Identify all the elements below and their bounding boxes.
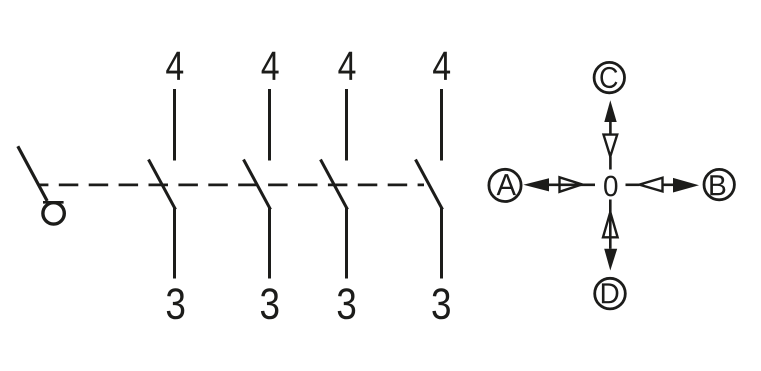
return arrow from B toward 0 (open) [639,178,662,192]
pin label 3 (pole 1) [167,288,184,319]
pin label 4 (pole 3) [338,52,355,80]
pin label 3 (pole 2) [261,288,278,319]
pole 3 bottom terminal wire (pin 3) [345,208,348,279]
node A circle [489,169,521,201]
node B letter [710,175,725,195]
node C circle [594,62,624,92]
actuator lever end bar [43,201,64,204]
node 0 (center rest position) [604,176,617,197]
return arrow from D toward 0 (open) [603,212,618,237]
pin label 3 (pole 4) [432,288,449,319]
pole 4 contact blade [416,160,443,210]
pole 1 contact blade [149,160,176,210]
pole 4 bottom terminal wire (pin 3) [440,208,443,279]
pin label 4 (pole 1) [166,52,183,80]
wire 0 to D (down arm) [609,200,612,249]
pole 4 top terminal wire (pin 4) [440,89,443,161]
actuate arrow toward D (filled) [604,249,617,271]
pole 3 top terminal wire (pin 4) [345,89,348,161]
node D letter [602,283,618,303]
return arrow from A toward 0 (open) [560,177,583,192]
pole 3 contact blade [321,160,348,210]
return arrow from C toward 0 (open) [604,135,618,157]
mechanical linkage dashed line [38,184,424,187]
pin label 4 (pole 2) [262,52,279,80]
pole 2 bottom terminal wire (pin 3) [268,208,271,279]
node B circle [704,169,734,199]
node C letter [600,67,617,88]
actuator lever [18,146,47,201]
pin label 3 (pole 3) [338,288,355,319]
pole 1 top terminal wire (pin 4) [173,89,176,161]
wire 0 to C (up arm) [609,122,612,170]
pole 2 contact blade [244,160,271,210]
actuate arrow toward C (filled) [604,100,616,122]
wire 0 to A (left arm) [549,184,595,187]
pole 1 bottom terminal wire (pin 3) [173,208,176,279]
wire 0 to B (right arm) [626,184,674,187]
actuate arrow toward B (filled) [673,178,699,193]
node D circle [595,278,626,309]
node A letter [497,174,516,195]
pole 2 top terminal wire (pin 4) [268,89,271,161]
actuator knob circle [43,203,64,224]
pin label 4 (pole 4) [433,52,450,80]
actuate arrow toward A (filled) [523,178,549,191]
